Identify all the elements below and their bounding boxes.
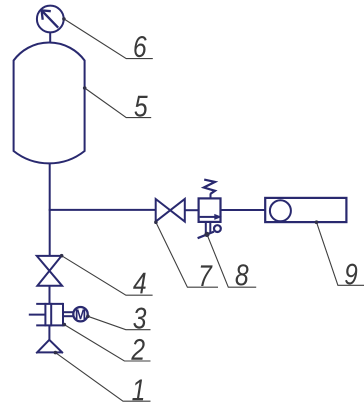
label 7: [201, 265, 213, 286]
label 1: [132, 380, 143, 401]
leader to label 9: [317, 222, 364, 285]
leader to label 7: [156, 222, 218, 287]
wire valve4-to-pump2: [49, 286, 51, 304]
valve V4: [37, 256, 62, 286]
label 2: [131, 339, 144, 360]
label 6: [134, 36, 146, 57]
leader to label 4: [62, 256, 153, 296]
wire valve7-to-regulator8: [185, 209, 199, 211]
vessel 5: [14, 42, 85, 163]
wire tee-to-valve7: [49, 209, 156, 211]
leader to label 6: [64, 19, 153, 59]
label 9: [345, 264, 357, 285]
label 5: [135, 96, 148, 117]
pump 2: [29, 303, 63, 327]
pressure gauge 6: [37, 6, 64, 33]
pressure regulator 8: [198, 180, 222, 239]
leader to label 2: [64, 325, 150, 361]
leader to label 5: [85, 88, 152, 118]
shaft coupling pump-motor: [63, 311, 73, 313]
motor M3: [73, 307, 87, 321]
label 8: [236, 264, 249, 285]
leader to label 3: [88, 316, 151, 329]
leader to label 8: [207, 234, 256, 287]
label 3: [133, 307, 146, 328]
strainer 1: [36, 340, 63, 354]
label 4: [133, 273, 146, 294]
wire pump2-to-strainer1: [48, 325, 50, 340]
position number labels: [131, 36, 357, 400]
leader to label 1: [55, 353, 150, 402]
leader lines: [55, 19, 364, 401]
wire vessel-to-valve4 (with tee node): [49, 163, 51, 257]
lubricator 9: [265, 198, 346, 222]
valve V7: [156, 199, 185, 222]
leader dots: [54, 17, 319, 354]
wire gauge-to-vessel: [49, 32, 51, 43]
wire regulator8-to-device9: [221, 209, 266, 211]
